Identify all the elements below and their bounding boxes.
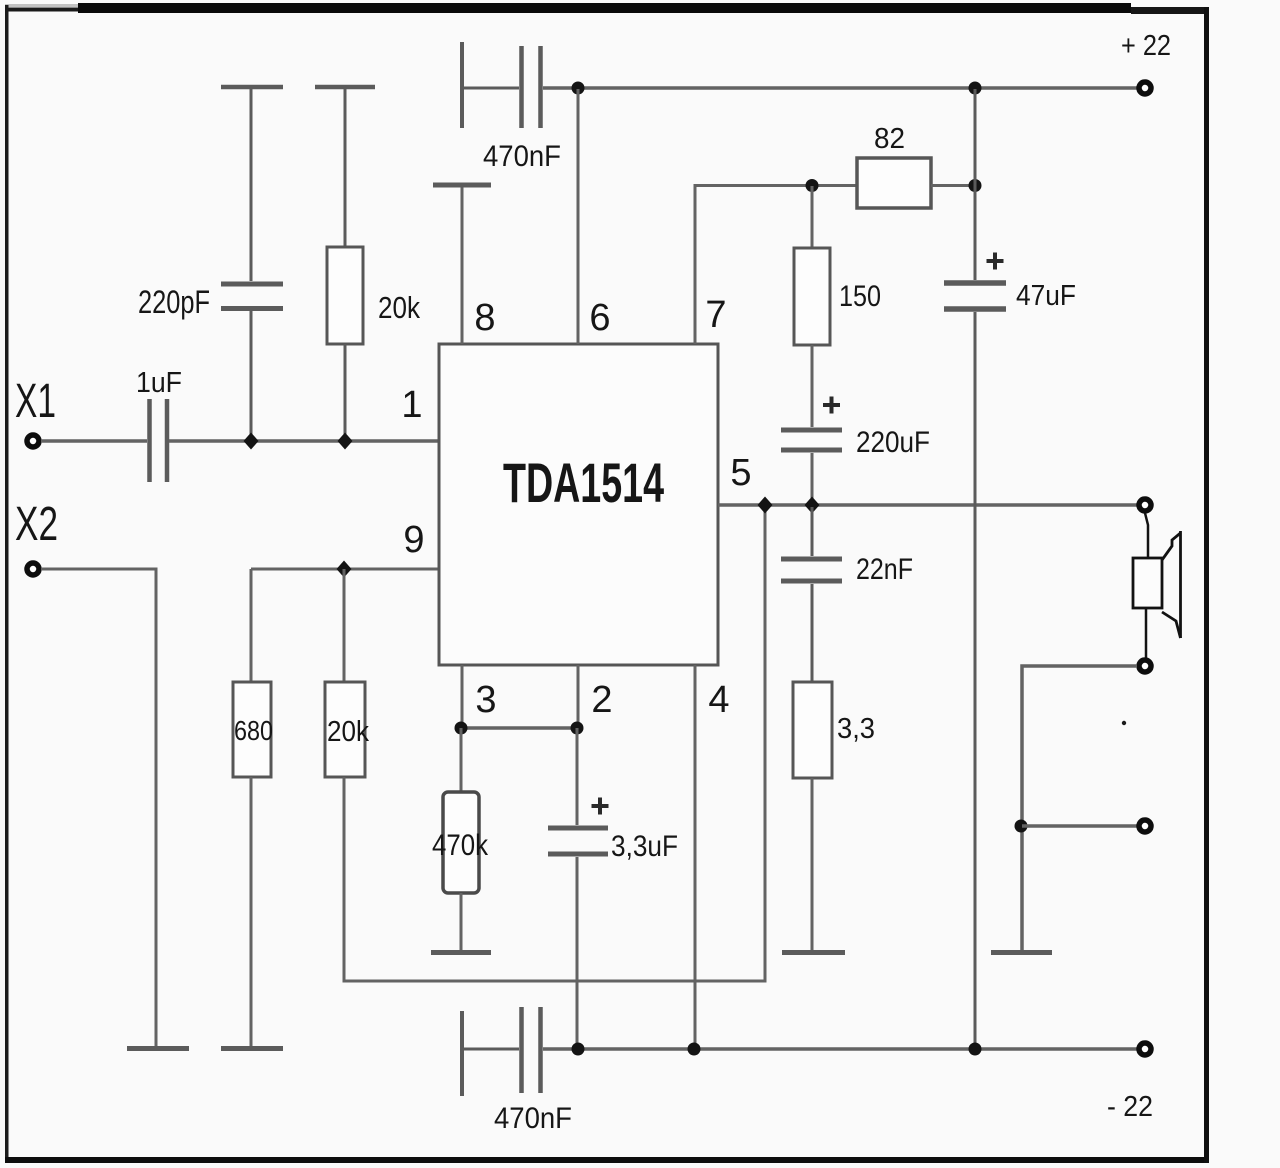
wire pin 5 to speaker bbox=[718, 503, 1138, 507]
border frame left bbox=[5, 5, 9, 1163]
svg-text:1uF: 1uF bbox=[136, 367, 182, 399]
IC U1 TDA1514 bbox=[439, 344, 718, 665]
node junction 82 right / 47uF rail bbox=[969, 179, 982, 192]
svg-text:1: 1 bbox=[401, 384, 422, 426]
wire 680 top lead bbox=[250, 569, 253, 682]
resistor 20k (upper) bbox=[315, 87, 375, 438]
node junction pin5/220uF bbox=[805, 497, 820, 514]
node junction pin4 rail bbox=[688, 1043, 701, 1056]
pin 6 stub wire bbox=[577, 89, 580, 344]
svg-text:4: 4 bbox=[708, 679, 729, 721]
wire pin 9 bbox=[251, 568, 438, 571]
wire +22 rail bbox=[543, 86, 1140, 90]
ground bar below 3,3 bbox=[782, 950, 845, 955]
wire speaker bottom lead bbox=[1145, 608, 1148, 658]
svg-text:3: 3 bbox=[475, 679, 496, 721]
capacitor 470nF (top) bbox=[462, 42, 541, 128]
svg-text:3,3: 3,3 bbox=[837, 713, 875, 745]
svg-text:20k: 20k bbox=[327, 716, 369, 748]
pin 8 stub wire bbox=[461, 187, 464, 344]
wire 3,3uF bottom lead bbox=[576, 857, 579, 1049]
wire 150 top lead bbox=[811, 186, 814, 248]
svg-text:5: 5 bbox=[730, 452, 751, 494]
svg-text:X1: X1 bbox=[15, 375, 56, 428]
wire 220uF bottom to pin5 rail bbox=[811, 453, 814, 505]
wire X2 right then down to bar bbox=[41, 569, 156, 1046]
svg-text:20k: 20k bbox=[378, 290, 420, 325]
wire pin3 to pin2 bottom link bbox=[462, 726, 578, 730]
svg-text:8: 8 bbox=[474, 297, 495, 339]
wire -22 rail bbox=[543, 1047, 1140, 1051]
node junction 20k/X1 wire bbox=[338, 433, 353, 450]
node junction pin2 bbox=[571, 722, 584, 735]
svg-text:680: 680 bbox=[234, 715, 273, 746]
svg-text:- 22: - 22 bbox=[1107, 1091, 1153, 1123]
node junction pin3 bbox=[455, 722, 468, 735]
pin 7 wire up and right to 82 bbox=[695, 186, 857, 345]
capacitor 1uF bbox=[150, 399, 168, 482]
border frame right bbox=[1204, 7, 1209, 1163]
svg-text:22nF: 22nF bbox=[856, 553, 913, 586]
node junction 220pF/X1 wire bbox=[244, 433, 259, 450]
node junction +22/47uF bbox=[969, 82, 982, 95]
ground bar below 470k bbox=[431, 950, 491, 955]
node junction 470nF/3,3uF rail bbox=[572, 1043, 585, 1056]
node junction 47uF rail bottom bbox=[969, 1043, 982, 1056]
bar terminator pin 8 bbox=[433, 183, 491, 188]
node junction at pin6/470nF bbox=[572, 82, 585, 95]
resistor 150 bbox=[794, 248, 830, 345]
plus sign 3,3uF bbox=[592, 798, 609, 815]
svg-text:TDA1514: TDA1514 bbox=[503, 451, 664, 514]
wire 20k lower top lead bbox=[343, 569, 346, 682]
svg-text:47uF: 47uF bbox=[1016, 280, 1076, 312]
ground bar below speaker return bbox=[991, 950, 1052, 955]
border frame bottom bbox=[5, 1157, 1209, 1163]
svg-text:9: 9 bbox=[403, 519, 424, 561]
wire 82 right lead bbox=[931, 184, 975, 187]
wire 3,3 bottom lead bbox=[811, 778, 814, 950]
speaker LS1 bbox=[1133, 531, 1181, 638]
capacitor 220uF bbox=[781, 430, 842, 450]
svg-text:+ 22: + 22 bbox=[1121, 30, 1171, 62]
terminal X2 bbox=[27, 563, 39, 575]
svg-text:470nF: 470nF bbox=[494, 1102, 572, 1135]
wire speaker top lead bbox=[1145, 513, 1148, 558]
border frame top bar bbox=[5, 3, 1205, 14]
node junction pin9/20k lower bbox=[337, 561, 352, 578]
wire speaker return left then down bbox=[1022, 666, 1137, 950]
resistor 680 bbox=[233, 682, 271, 777]
svg-text:3,3uF: 3,3uF bbox=[611, 830, 678, 863]
wire 150 bottom to 220uF bbox=[811, 345, 814, 427]
terminal speaker bottom bbox=[1139, 660, 1151, 672]
bar terminator below X2 wire bbox=[127, 1046, 189, 1051]
bar terminator below 680 bbox=[221, 1046, 283, 1051]
node junction pin5/feedback bbox=[758, 497, 773, 514]
svg-text:2: 2 bbox=[591, 679, 612, 721]
capacitor 470nF (bottom) bbox=[462, 1007, 541, 1096]
wire X1 to 1uF bbox=[41, 439, 147, 443]
svg-text:82: 82 bbox=[874, 123, 905, 155]
svg-text:7: 7 bbox=[705, 294, 726, 336]
svg-text:470k: 470k bbox=[432, 829, 489, 862]
svg-text:470nF: 470nF bbox=[483, 140, 561, 173]
capacitor 22nF bbox=[781, 507, 842, 682]
pin 3 stub wire bbox=[461, 665, 464, 728]
resistor 470k bbox=[443, 792, 479, 893]
wire feedback 20k down then right then up to pin5 node bbox=[344, 511, 765, 981]
svg-text:150: 150 bbox=[839, 280, 881, 313]
node junction 82 left / 150 top bbox=[806, 179, 819, 192]
wire 470k bottom lead bbox=[460, 893, 463, 950]
stray dot bbox=[1122, 721, 1126, 725]
terminal X1 bbox=[27, 435, 39, 447]
pin 2 stub wire bbox=[577, 665, 580, 728]
capacitor 47uF bbox=[944, 89, 1006, 1049]
svg-text:X2: X2 bbox=[15, 498, 58, 551]
node junction speaker return bbox=[1015, 820, 1028, 833]
resistor 82 bbox=[857, 158, 931, 208]
svg-text:220uF: 220uF bbox=[856, 426, 930, 459]
wire 1uF to pin 1 bbox=[169, 439, 438, 443]
pin 4 wire down to -22 rail bbox=[694, 665, 697, 1049]
terminal mid right bbox=[1139, 820, 1151, 832]
wire to terminal mid right bbox=[1022, 824, 1137, 828]
capacitor 3,3uF bbox=[548, 828, 608, 854]
terminal +22 bbox=[1139, 82, 1151, 94]
plus sign 47uF bbox=[987, 253, 1004, 270]
resistor 3,3 bbox=[793, 682, 832, 778]
wire 470k top lead bbox=[460, 728, 463, 792]
capacitor 220pF bbox=[221, 87, 283, 438]
wire 3,3uF top lead bbox=[576, 728, 579, 825]
svg-text:6: 6 bbox=[589, 297, 610, 339]
svg-text:220pF: 220pF bbox=[138, 284, 210, 320]
plus sign 220uF bbox=[823, 397, 840, 414]
resistor 20k (lower) bbox=[325, 682, 365, 777]
terminal speaker top bbox=[1139, 499, 1151, 511]
terminal -22 bbox=[1139, 1043, 1151, 1055]
wire 680 bottom lead bbox=[250, 777, 253, 1046]
